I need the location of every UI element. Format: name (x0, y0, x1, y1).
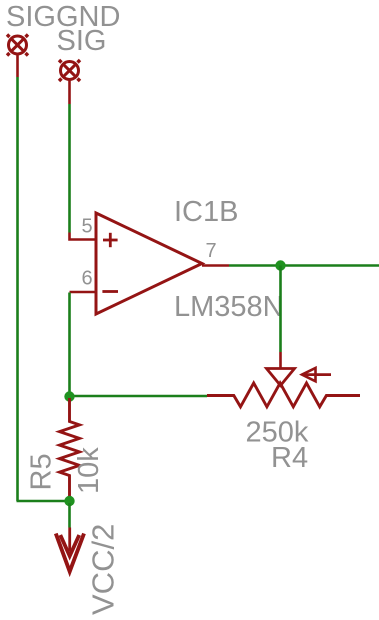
wire output net horizontal (229, 264, 379, 267)
svg-text:5: 5 (82, 216, 93, 238)
potentiometer R4 adjust arrow (302, 368, 331, 381)
svg-text:7: 7 (206, 240, 217, 262)
svg-text:SIG: SIG (57, 25, 107, 57)
resistor R5 body (60, 398, 80, 500)
wire pin 7 stub (202, 264, 229, 267)
supply pin SIGGND (7, 35, 28, 78)
wire net to VCC2 (68, 503, 71, 528)
potentiometer R4 body (207, 383, 360, 407)
wire pin 5 stub (70, 233, 97, 240)
potentiometer R4 wiper triangle (267, 369, 295, 386)
wire net SIGGND vertical (16, 77, 19, 501)
wire output to wiper vertical (279, 266, 282, 353)
svg-text:R5: R5 (26, 453, 58, 490)
svg-text:10k: 10k (73, 447, 105, 494)
supply arrow VCC/2 (56, 528, 84, 572)
wire feedback net horizontal (70, 395, 208, 398)
junction feedback node (64, 391, 74, 401)
wire wiper stub (279, 352, 282, 368)
op-amp plus input symbol (103, 233, 118, 247)
op-amp IC1B triangle (96, 213, 202, 314)
svg-text:IC1B: IC1B (174, 196, 238, 228)
wire net SIG vertical to pin 5 (68, 104, 71, 233)
supply pin SIG (59, 60, 80, 104)
junction ground node (64, 496, 74, 506)
svg-text:6: 6 (82, 268, 93, 290)
wire net pin6 to feedback node (68, 293, 71, 397)
svg-text:VCC/2: VCC/2 (86, 524, 121, 615)
svg-text:R4: R4 (271, 442, 308, 474)
op-amp minus input symbol (102, 290, 118, 293)
wire net SIGGND bottom horizontal (17, 500, 70, 503)
junction output node (275, 260, 285, 270)
svg-text:LM358N: LM358N (174, 291, 284, 323)
wire pin 6 stub (70, 291, 97, 294)
